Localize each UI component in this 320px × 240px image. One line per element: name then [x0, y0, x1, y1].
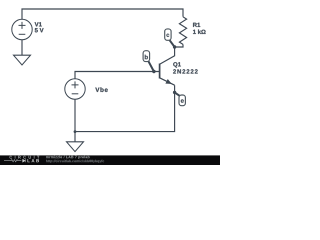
label V1: [35, 22, 42, 26]
wire: V+ net from V1 top across to R1 top: [22, 9, 183, 19]
node label e with pointer to emitter wire: [173, 91, 185, 106]
ground symbol under Vbe: [67, 142, 84, 152]
watermark logo CIRCUIT: [9, 156, 39, 159]
ground symbol under V1: [14, 55, 31, 65]
value label 2N2222: [173, 69, 198, 73]
node label c with pointer to collector: [165, 29, 177, 49]
value label 1 kOhm: [193, 30, 206, 34]
value label 5 V: [35, 28, 44, 32]
label R1: [193, 23, 200, 27]
watermark text line 1: [46, 156, 90, 159]
wire: R1 bottom to Q1 collector: [175, 44, 183, 47]
watermark bar: [0, 155, 220, 165]
wire: Vbe bottom lead to ground: [74, 99, 76, 142]
wire: base net from Vbe top to Q1 base: [75, 72, 160, 79]
wire: emitter net down and across to ground wire: [75, 85, 175, 131]
watermark logo diode glyph: [23, 159, 26, 162]
voltage source V1: [12, 19, 32, 39]
resistor R1: [179, 17, 186, 45]
emitter arrow of Q1: [166, 80, 171, 84]
node label b with pointer to base wire: [143, 51, 155, 74]
watermark logo resistor squiggle: [4, 160, 21, 162]
transistor Q1 2N2222 (NPN): [160, 47, 175, 85]
watermark text line 2: [46, 160, 104, 163]
wire: V1 bottom lead to ground: [21, 40, 23, 56]
voltage source Vbe: [65, 79, 85, 99]
junction: emitter net joins Vbe ground wire: [74, 130, 77, 133]
label Vbe: [95, 87, 107, 92]
watermark logo LAB: [27, 159, 39, 162]
label Q1: [173, 62, 181, 67]
